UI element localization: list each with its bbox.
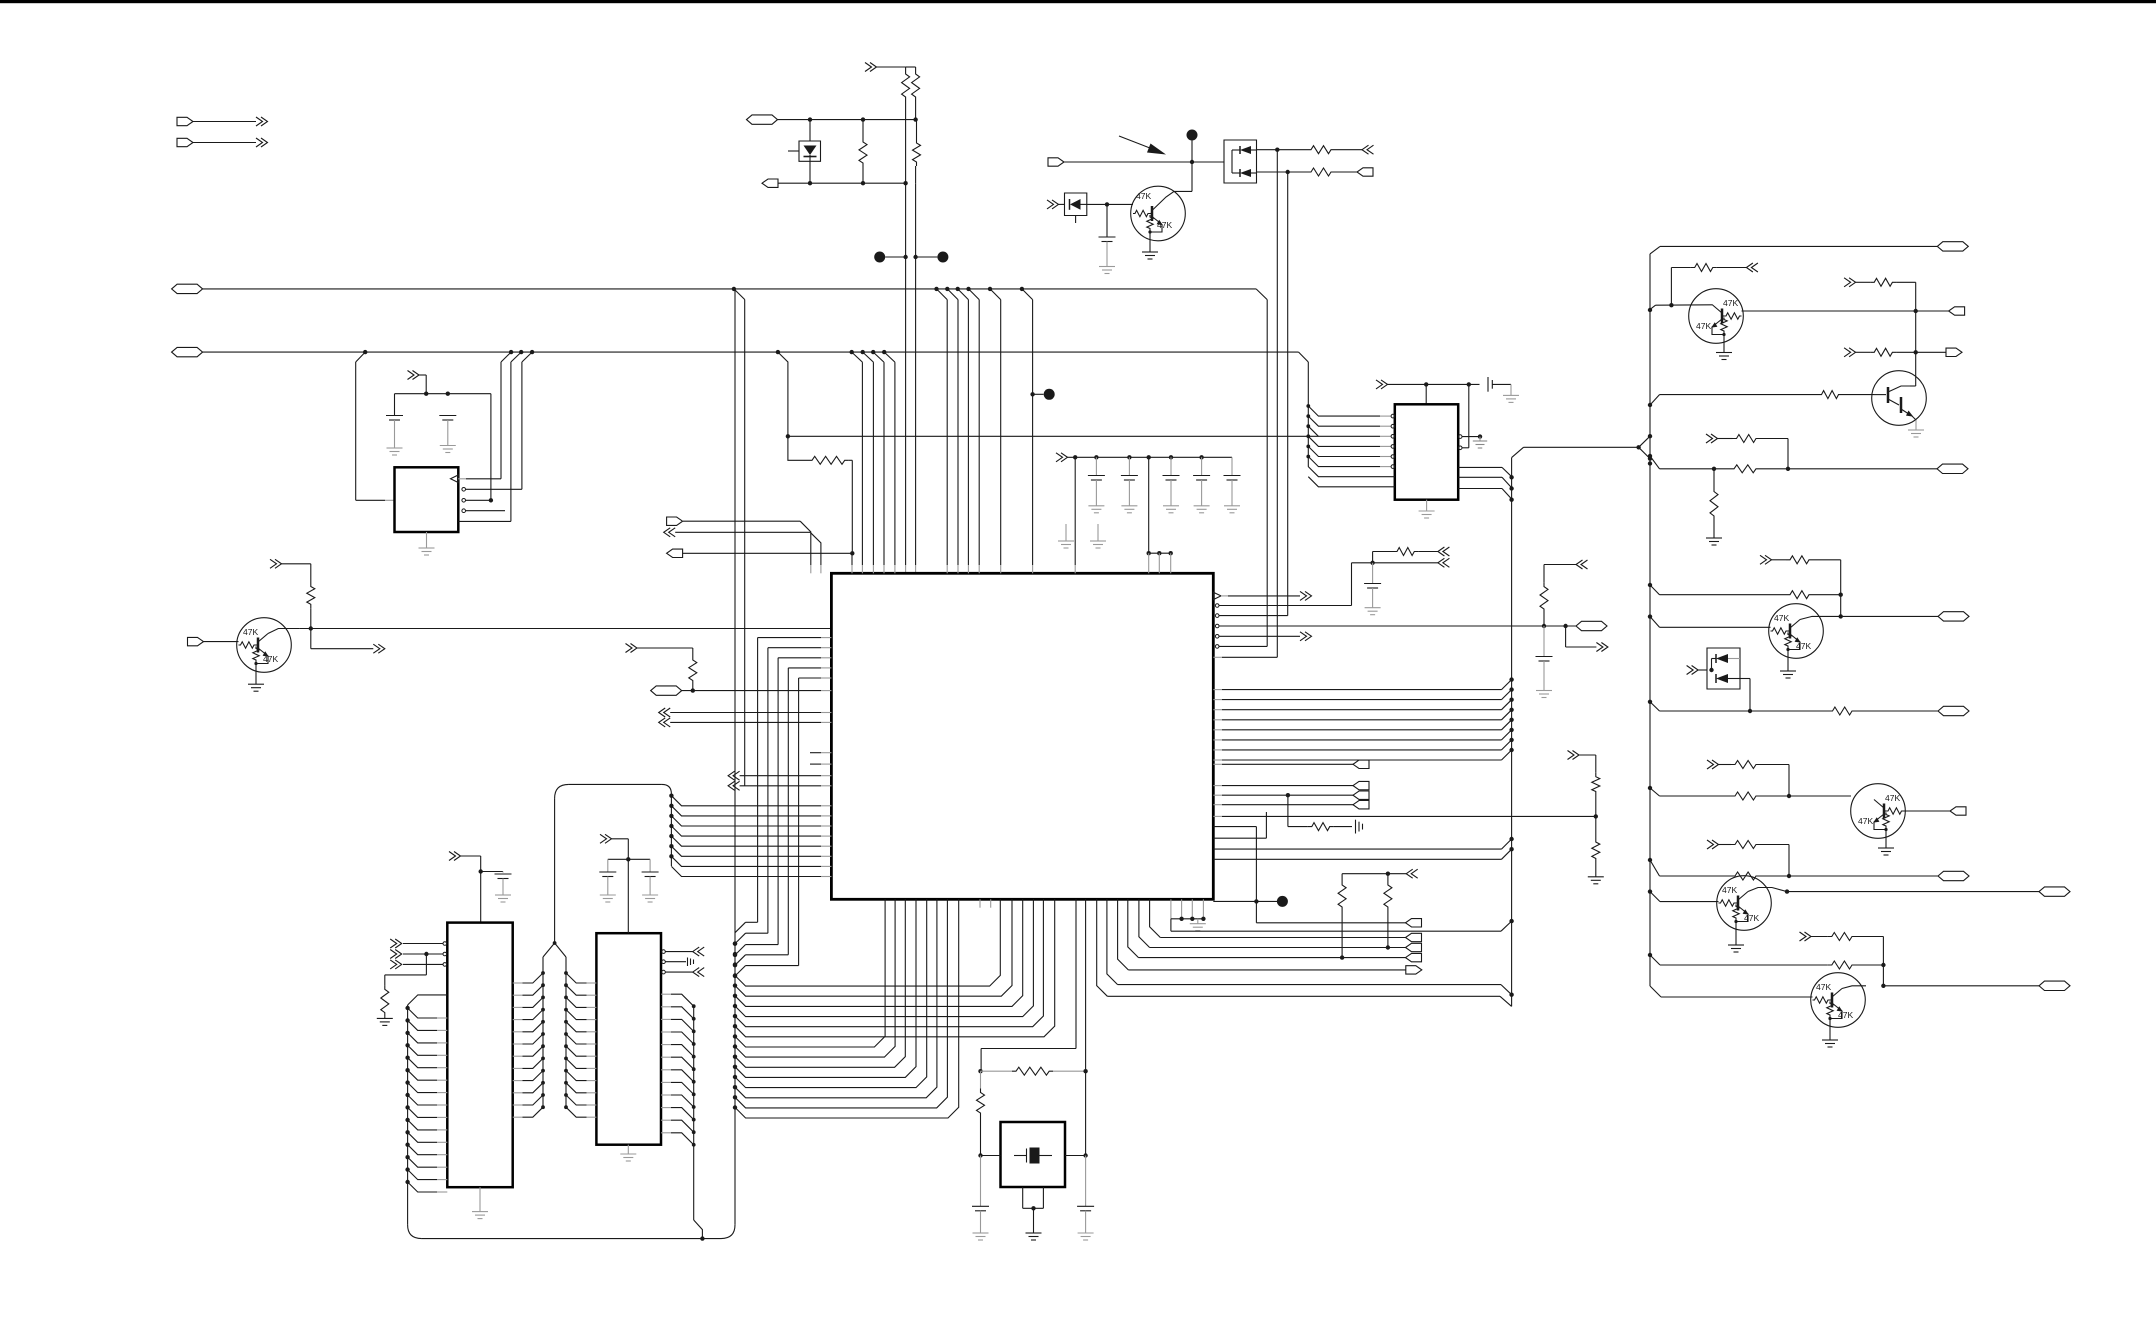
capacitor C u5 xyxy=(1487,377,1489,392)
wire row626 branch xyxy=(1565,626,1567,647)
wire U4 left bus xyxy=(565,957,567,1107)
resistor R q1c xyxy=(307,583,315,609)
wire cap-bank rail xyxy=(1056,453,1068,462)
resistor R mid-b xyxy=(916,120,918,139)
ground C u5 xyxy=(1503,394,1519,396)
wire zener lower net xyxy=(762,179,778,187)
zener D1 symbol xyxy=(804,146,817,156)
transistor T3 xyxy=(1769,604,1824,659)
wire xtal left feed xyxy=(1075,899,1077,1048)
wire T6 base feed xyxy=(1650,986,1661,997)
IC U5 xyxy=(1395,404,1458,499)
connector P4 xyxy=(188,637,204,645)
transistor T6 xyxy=(1811,973,1866,1028)
resistor R d2b xyxy=(1307,168,1335,176)
U1 row 626 net xyxy=(1215,624,1219,628)
ground stub U1 top a xyxy=(1065,524,1067,541)
microcontroller U1 xyxy=(831,573,1213,899)
junction trunk y405 xyxy=(1648,403,1652,407)
IC U2 xyxy=(395,467,459,532)
wire U1 row 690 net xyxy=(651,686,682,695)
U2 pin1 arrow xyxy=(451,475,459,483)
resistor R row690 xyxy=(692,685,694,691)
ground symbol U1 bottom xyxy=(1190,923,1206,925)
U1 pin arrow right xyxy=(1213,592,1221,599)
ground C u4a xyxy=(600,894,616,896)
wire row 838 stub xyxy=(1213,837,1266,839)
power arrow U3 xyxy=(449,852,461,861)
wire U5 left fan xyxy=(1307,362,1309,467)
stub U1 bottom gray a xyxy=(979,899,981,907)
junction trunk y585 xyxy=(1648,583,1652,587)
wire vertical v1033 with bullet xyxy=(1032,300,1034,565)
resistor R t2d xyxy=(1818,391,1843,399)
resistor R top-a xyxy=(906,66,916,68)
resistor R xtal left xyxy=(980,1071,982,1088)
U2 pin4 xyxy=(462,509,466,513)
resistor R row795 xyxy=(1287,795,1289,826)
wire U4 cap rail xyxy=(608,858,650,860)
wire U3 left bus xyxy=(407,1005,409,1225)
wire row 901 net xyxy=(1213,900,1282,902)
U4 pin c xyxy=(662,970,666,974)
dual diode D2 bottom xyxy=(1240,169,1251,177)
wire feed469 xyxy=(1650,456,1660,469)
wire bus to right trunk xyxy=(1512,447,1524,457)
top title bar xyxy=(0,0,2156,3)
U2 pin1 wire xyxy=(458,478,466,480)
svg-text:47K: 47K xyxy=(1885,793,1900,803)
svg-text:47K: 47K xyxy=(1816,982,1831,992)
wire U1 left rows lower bundle xyxy=(670,794,672,866)
wire U1 row 786 xyxy=(728,781,740,790)
ground stub U1 top b xyxy=(1097,524,1099,541)
junction trunk y463.5 xyxy=(1648,461,1652,465)
power arrow U4 xyxy=(600,834,612,843)
ground Y1 case xyxy=(1026,1232,1042,1234)
U1 row 615 net xyxy=(1215,614,1219,618)
wire T1 base feed xyxy=(1650,305,1656,309)
capacitor Cb3 xyxy=(1170,457,1172,475)
wire apex node xyxy=(554,798,556,943)
wire row 931 net xyxy=(1170,919,1172,931)
wire bus W2 (row y352) xyxy=(172,347,203,356)
wire U1 row 764 stub xyxy=(810,763,821,765)
wire center bus v735 xyxy=(734,289,736,1225)
capacitor C q2 xyxy=(1106,204,1108,237)
wire U1 bottom pins group C bends xyxy=(1150,899,1161,937)
zener D1 box xyxy=(799,141,821,161)
wire T3 pullup xyxy=(1760,555,1772,564)
transistor T1 xyxy=(1689,289,1744,344)
ground U5 bottom xyxy=(1426,500,1428,511)
ground Q2 xyxy=(1142,251,1158,253)
wire feed469 pull xyxy=(1706,434,1718,443)
U5 pin right a xyxy=(1458,435,1462,439)
junction trunk y310 xyxy=(1648,308,1652,312)
bullet node NB3 xyxy=(1187,130,1198,141)
wire row 826 to bullet xyxy=(1213,826,1256,828)
transistor Q2 xyxy=(1131,186,1186,241)
svg-text:47K: 47K xyxy=(1858,816,1873,826)
wire col1544 pullup xyxy=(1576,560,1588,569)
wire trunk top to conn xyxy=(1650,246,1660,254)
wire T5 base feed xyxy=(1650,892,1660,902)
svg-text:47K: 47K xyxy=(243,627,258,637)
wire v1075 xyxy=(1074,457,1076,565)
junction trunk y860 xyxy=(1648,858,1652,862)
wire verticals W1 bundle xyxy=(946,300,948,565)
dual diode DD3 box xyxy=(1687,666,1699,675)
power arrow VCC xyxy=(865,63,877,72)
connector P6 xyxy=(664,528,676,537)
U1 row 636 net xyxy=(1215,635,1219,639)
ground C xr xyxy=(1078,1232,1094,1234)
power arrow U2 xyxy=(408,371,420,380)
wire row 970 net xyxy=(1128,969,1406,971)
svg-text:47K: 47K xyxy=(1722,885,1737,895)
wire xtal right feed xyxy=(1085,899,1087,1155)
wire U2 top rail xyxy=(395,393,491,395)
wire Q1 collector net xyxy=(299,628,831,630)
wire vertical bus VA xyxy=(905,101,907,565)
wire vertical v744 xyxy=(744,300,746,786)
wire T5 collector net xyxy=(1748,888,1772,892)
wire col1595 pull xyxy=(1568,751,1580,760)
ground T4 xyxy=(1885,838,1887,848)
transistor T5 xyxy=(1717,876,1772,931)
connector P7 xyxy=(667,549,683,557)
wire T1 pullup res xyxy=(1844,278,1856,287)
ground Cb5 xyxy=(1224,505,1240,507)
dual diode DD3 top xyxy=(1716,654,1728,663)
capacitor C xr xyxy=(1085,1156,1087,1207)
U2 pin5 xyxy=(458,520,511,522)
capacitor Cb1 xyxy=(1095,457,1097,475)
U4 pin a xyxy=(662,950,666,954)
wire row 996 net xyxy=(1097,899,1108,996)
resistor R u3pull xyxy=(425,954,427,975)
resistor R top-b xyxy=(912,70,920,101)
U2 pin2 xyxy=(462,488,466,492)
wire feed711 xyxy=(1650,702,1660,711)
wire Q1 collector exit xyxy=(268,629,299,634)
wire row 849 net xyxy=(1213,848,1501,850)
wire vertical from D2b xyxy=(1287,172,1289,616)
ground C u2a xyxy=(387,447,403,449)
wire U4 right bus xyxy=(693,1006,695,1220)
wire fan U1 left rows 2-6 xyxy=(758,637,821,639)
wire row 947 net xyxy=(1150,947,1406,949)
capacitor C xl xyxy=(980,1156,982,1207)
capacitor C u3 xyxy=(481,871,503,873)
U3 pin b xyxy=(443,952,447,956)
resistor R row463 xyxy=(788,436,808,460)
resistor R xtal top xyxy=(981,1070,1013,1072)
capacitor C u4b xyxy=(649,859,651,872)
ground U4 xyxy=(627,1145,629,1154)
node R/C 562 xyxy=(1370,561,1374,565)
wire feed876 xyxy=(1650,860,1660,876)
wire row 957 net xyxy=(1139,957,1406,959)
ground T5 xyxy=(1735,930,1737,945)
U3 pin c xyxy=(443,963,447,967)
resistor R n562 xyxy=(1373,551,1393,553)
U1 row 605 net xyxy=(1215,604,1219,608)
ground C u3 xyxy=(495,894,511,896)
junction trunk y616.6 xyxy=(1648,614,1652,618)
svg-text:47K: 47K xyxy=(1723,298,1738,308)
capacitor C col1544 xyxy=(1543,626,1545,657)
wire row 764 net xyxy=(1213,763,1222,765)
IC U3 xyxy=(447,923,512,1188)
wire row 805 net xyxy=(1213,804,1222,806)
wire v1149 triple xyxy=(1148,457,1150,553)
wire row 795 net xyxy=(1213,794,1222,796)
capacitor C u2b xyxy=(439,415,456,417)
resistor R col1595a xyxy=(1592,773,1600,796)
connector P5 xyxy=(667,517,683,525)
ground U5 pin xyxy=(1473,440,1487,442)
capacitor C u4a xyxy=(607,859,609,872)
ground R feed469 xyxy=(1706,537,1722,539)
svg-text:47K: 47K xyxy=(1796,641,1811,651)
svg-text:47K: 47K xyxy=(1838,1010,1853,1020)
wire bus W1 (row y289) xyxy=(172,284,203,293)
ground U3 xyxy=(479,1187,481,1211)
resistor R t1pull xyxy=(1670,268,1672,306)
wire U5 rows to bus xyxy=(1458,466,1502,468)
ground C u2b xyxy=(440,445,456,447)
wire row 985 net xyxy=(1107,899,1118,984)
IC U4 xyxy=(596,933,661,1144)
ground Q1 xyxy=(255,672,257,684)
wire loop top xyxy=(569,783,662,785)
wire bus rows to U1 bottom pins xyxy=(735,899,1000,986)
wire U1 row 753 stub xyxy=(810,752,821,754)
wire v356 to U2 xyxy=(355,362,357,500)
wire T4 collector out xyxy=(1904,810,1951,812)
capacitor Cb5 xyxy=(1231,457,1233,475)
wire row 937 net xyxy=(1160,937,1405,939)
ground Cb2 xyxy=(1121,505,1137,507)
wire feed965 xyxy=(1650,955,1660,965)
wire loop bottom xyxy=(408,1225,422,1239)
resistor R mid-a xyxy=(862,120,864,138)
wire T6 pullup xyxy=(1800,932,1812,941)
wire T2d base feed xyxy=(1650,395,1660,405)
wire vertical bus VB xyxy=(915,183,917,565)
stub U1 bottom gray b xyxy=(990,899,992,907)
wire row 859 net xyxy=(1213,858,1501,860)
U2 pin3 xyxy=(462,499,466,503)
svg-text:47K: 47K xyxy=(1157,220,1172,230)
wire U1 row 776 xyxy=(728,771,740,780)
ground T6 xyxy=(1829,1027,1831,1040)
annotation arrow xyxy=(1119,136,1155,150)
wire T1b feed xyxy=(1844,348,1856,357)
wire feed876 pullup xyxy=(1707,840,1719,849)
U2 bottom ground xyxy=(426,532,428,548)
svg-text:47K: 47K xyxy=(263,654,278,664)
svg-text:47K: 47K xyxy=(1136,191,1151,201)
resistor R rb xyxy=(1387,874,1389,881)
svg-text:47K: 47K xyxy=(1696,321,1711,331)
wire right trunk bus xyxy=(1649,254,1651,986)
wire vertical v1267 xyxy=(1266,300,1268,647)
connector P3 xyxy=(1048,158,1064,166)
ground T1 xyxy=(1723,343,1725,353)
ground Cb1 xyxy=(1088,505,1104,507)
wire VPP net xyxy=(747,115,778,124)
resistor R feed469 down xyxy=(1713,469,1715,488)
ground Cb3 xyxy=(1163,505,1179,507)
ground small row795 xyxy=(1355,820,1357,834)
wire Q1 pullup xyxy=(270,559,282,568)
capacitor Cb4 xyxy=(1201,457,1203,475)
dual diode D2 box xyxy=(1224,140,1257,183)
wire vertical from D2a xyxy=(1276,150,1278,658)
ground T3 xyxy=(1787,658,1789,671)
crystal Y1 symbol xyxy=(1030,1148,1040,1164)
crystal Y1 case pin xyxy=(1022,1187,1024,1208)
ground capacitor C q2 xyxy=(1099,266,1115,268)
bullet node NB2 xyxy=(937,252,948,263)
dual diode DD3 bottom xyxy=(1716,674,1728,683)
junction trunk y456 xyxy=(1648,454,1652,458)
U3 pin a xyxy=(443,942,447,946)
junction trunk y701.8 xyxy=(1648,700,1652,704)
svg-text:47K: 47K xyxy=(1774,613,1789,623)
zener D3 symbol xyxy=(1070,199,1081,210)
ground C xl xyxy=(973,1232,989,1234)
wire T3 feed xyxy=(1650,585,1660,595)
transistor Q1 xyxy=(237,618,292,673)
resistor R d2a xyxy=(1307,146,1335,154)
bullet node NB1 xyxy=(874,252,885,263)
wire zener D3 to Q2 xyxy=(1087,203,1133,205)
wire Q1 branch xyxy=(310,629,312,649)
U5 pin right b xyxy=(1458,446,1462,450)
wire U3 right bus xyxy=(542,957,544,1107)
junctions center bus xyxy=(733,942,737,946)
ground bus U1 bottom xyxy=(1170,899,1172,919)
crystal Y1 box xyxy=(1001,1122,1066,1187)
wire T6 collector exit xyxy=(1842,986,1866,989)
junction trunk y891.6 xyxy=(1648,889,1652,893)
wire U1 row 722 xyxy=(659,718,671,727)
wire n562 out xyxy=(1373,562,1438,564)
svg-text:47K: 47K xyxy=(1744,913,1759,923)
capacitor C n562 xyxy=(1372,563,1374,584)
wire T6 collector net xyxy=(1882,965,1884,986)
wire T3 collector xyxy=(1800,616,1841,619)
wire bus v1511 xyxy=(1511,458,1513,1007)
wire T3 base xyxy=(1650,617,1660,628)
wire T4 pullup xyxy=(1707,760,1719,769)
wire xtal pin left xyxy=(981,1155,1001,1157)
wire U1 right rows bundle to bus xyxy=(1213,689,1222,691)
power arrow U5 xyxy=(1376,380,1388,389)
ground C n562 xyxy=(1365,607,1381,609)
wire D2 out top xyxy=(1257,149,1308,151)
wire DD3 internal xyxy=(1712,658,1717,660)
capacitor C u2a xyxy=(386,415,403,417)
connector J2 top-left xyxy=(177,138,193,146)
transistor T2 darlington xyxy=(1872,371,1927,426)
connector J1 top-left xyxy=(177,117,193,125)
ground C col1544 xyxy=(1536,690,1552,692)
ground col1595 xyxy=(1588,876,1604,878)
wire U1 row 712 xyxy=(659,708,671,717)
U1 row 657 net xyxy=(1213,656,1222,658)
resistor R ra xyxy=(1342,873,1388,875)
junction trunk y955 xyxy=(1648,953,1652,957)
U4 pin b xyxy=(662,960,666,964)
capacitor Cb2 xyxy=(1128,457,1130,475)
U1 row 646 net xyxy=(1215,645,1219,649)
wire D2 out bottom xyxy=(1257,171,1308,173)
ground R u3pull xyxy=(377,1017,393,1019)
wire row 816 net xyxy=(1213,815,1222,817)
ground Cb4 xyxy=(1194,505,1210,507)
wire row436 long xyxy=(788,435,1319,437)
resistor R col1595b xyxy=(1595,816,1597,838)
transistor T4 xyxy=(1851,784,1906,839)
wire row 786 net xyxy=(1213,785,1222,787)
wire verticals W2 bundle xyxy=(861,362,863,565)
wire row 923 net xyxy=(1256,922,1405,924)
ground T2d xyxy=(1915,420,1917,430)
dual diode D2 top xyxy=(1240,146,1251,154)
ground C u4b xyxy=(642,894,658,896)
zener D3 box xyxy=(1047,200,1059,209)
wire T1 collector net xyxy=(1742,310,1916,312)
wire T4 base feed xyxy=(1650,788,1660,796)
resistor R col1544 xyxy=(1540,583,1548,613)
wire D2 internal xyxy=(1232,149,1240,151)
junction trunk y788 xyxy=(1648,786,1652,790)
wire xtal pin right xyxy=(1065,1155,1086,1157)
